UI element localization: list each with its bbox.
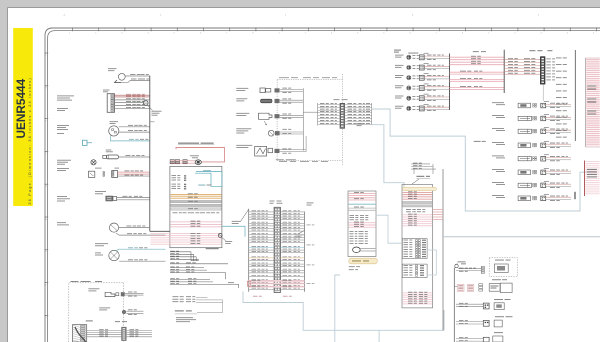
- relay row 6 connector: [541, 170, 546, 175]
- relay row 8 label: [492, 194, 504, 197]
- machine interface label: [57, 95, 74, 98]
- relay row 3 body: [518, 129, 531, 133]
- wires coolant sensor to trunk: [119, 126, 150, 128]
- relay row 7 pins: [533, 183, 535, 185]
- warning lamp label: [99, 307, 110, 310]
- ckt breaker label: [57, 124, 69, 127]
- optional diagnostic box: [489, 258, 517, 277]
- wires B3: [119, 226, 150, 228]
- junction box label row: [173, 211, 178, 214]
- bottom trunk: [453, 268, 455, 342]
- route B to block: [372, 125, 404, 187]
- staircase above block B: [411, 163, 430, 165]
- timing cal probe row: [236, 144, 252, 147]
- relay row 1 body: [518, 103, 530, 108]
- injector 6 wires: [424, 106, 449, 108]
- oil pressure sender: [103, 155, 107, 158]
- injector 4 label: [395, 84, 404, 87]
- svg-text:2: 2: [305, 32, 306, 34]
- injector 2 connector: [419, 65, 424, 70]
- throttle position sensor: [89, 171, 95, 177]
- power table 2 right: [584, 161, 586, 197]
- strip1 bottom label: [357, 122, 364, 125]
- wires J1 to trunk (battery red): [115, 94, 150, 96]
- bulkhead strip: [122, 327, 126, 340]
- injector rail: [449, 54, 451, 111]
- block A breakout oval: [353, 247, 361, 253]
- svg-text:1: 1: [69, 32, 70, 34]
- oil pressure lamp symbol: [91, 160, 96, 165]
- switch row 4: [459, 319, 464, 322]
- bulkhead connector label: [86, 320, 93, 321]
- harness bundle group 4: [170, 277, 175, 280]
- banner title UENR5444: [14, 78, 28, 138]
- ECM connector pin strip: [274, 207, 280, 292]
- injector 1 wires: [424, 55, 449, 57]
- svg-text:2: 2: [95, 32, 96, 34]
- relay row 1 pins: [533, 104, 535, 106]
- injector 4 solenoid: [407, 86, 411, 90]
- throttle pedal labels: [57, 167, 69, 170]
- route label: [474, 140, 481, 143]
- banner subtitle: [28, 77, 32, 205]
- svg-text:8: 8: [462, 32, 463, 34]
- relay column rail: [574, 50, 576, 141]
- teal spare mark: [83, 140, 88, 145]
- trunk elbow to connector box: [150, 230, 170, 232]
- coolant temp sensor B2: [109, 126, 119, 136]
- block B cab main box: [402, 185, 433, 308]
- wire speed sensor to trunk: [125, 75, 150, 77]
- callout engine speed: [147, 105, 152, 111]
- svg-text:5: 5: [383, 32, 384, 34]
- strip3 to relay link: [542, 84, 544, 101]
- service tool row 2: [458, 284, 474, 291]
- engine sensors dashed boundary: [276, 80, 278, 161]
- injector 2 wires: [424, 65, 449, 67]
- intake pressure sensor row: [236, 112, 249, 115]
- service tool note title: [178, 143, 199, 144]
- block B label rows: [406, 208, 411, 211]
- label under junction box: [206, 248, 219, 249]
- machine harness junction box: [170, 166, 222, 247]
- injector 6 connector: [419, 106, 424, 111]
- relay row 4 pins: [533, 143, 535, 145]
- block A inner labels: [350, 230, 354, 233]
- wires shutdown to trunk: [117, 197, 150, 199]
- injector 2 solenoid: [407, 65, 411, 69]
- relay wiring teal staircase: [196, 171, 222, 173]
- at level label: [190, 154, 199, 157]
- injector 5 solenoid: [407, 96, 411, 100]
- svg-text:4: 4: [357, 32, 358, 34]
- spare wire label column: [556, 57, 562, 60]
- relay row 3 pins: [533, 129, 535, 131]
- svg-text:7: 7: [226, 32, 227, 34]
- svg-text:3: 3: [331, 32, 332, 34]
- relay row 1 connector: [541, 103, 546, 108]
- block A cream banner: [349, 258, 378, 264]
- engine connector strip J3: [340, 103, 345, 128]
- injector 3 solenoid: [407, 76, 411, 80]
- service connector row: [459, 267, 464, 270]
- block B hatch rows: [403, 201, 433, 203]
- bottom trunk entry: [455, 264, 458, 267]
- relay row 8 wires: [546, 196, 571, 198]
- fuel switch wires: [125, 292, 144, 294]
- field vertical mid: [334, 282, 336, 342]
- relay row 7 body: [518, 183, 531, 187]
- block A label rows: [350, 214, 355, 217]
- long field wire: [443, 236, 600, 238]
- block B cream banner: [402, 187, 436, 190]
- fuel pressure switch label: [88, 287, 99, 290]
- key switch feed wires: [504, 59, 540, 61]
- relay row 3 wires: [546, 129, 571, 131]
- block B to rail stubs: [433, 209, 444, 211]
- svg-text:5: 5: [174, 32, 175, 34]
- block A cab harness: [348, 191, 376, 257]
- relay row 6 wires: [546, 170, 571, 172]
- ECM battery pin red: [247, 281, 250, 286]
- injector 1 label: [395, 54, 404, 57]
- svg-text:UENR5444: UENR5444: [14, 78, 28, 138]
- relay row 4 connector: [541, 143, 546, 148]
- block B bottom pink rows: [403, 292, 432, 294]
- injector 1 solenoid: [407, 55, 411, 59]
- injector 4 connector: [419, 86, 424, 91]
- note text block: [176, 316, 193, 319]
- relay row 2 pins: [533, 116, 535, 118]
- mid rail: [503, 50, 505, 93]
- relay row 6 label: [492, 168, 504, 171]
- harness bundle row 2: [170, 261, 175, 264]
- oil pressure sender label: [106, 149, 112, 152]
- ground wires text rows: [172, 295, 178, 298]
- coolant temp sensor B2 label: [110, 120, 119, 123]
- fuel pressure switch: [105, 292, 115, 296]
- relay row 5 body: [518, 157, 531, 161]
- junction box orange rows: [171, 194, 222, 196]
- relay row 6 pins: [533, 170, 535, 172]
- relay row 3 connector: [541, 129, 546, 134]
- red jumper loop: [176, 148, 225, 162]
- switch row 5: [459, 336, 464, 339]
- injector 2 label: [395, 64, 404, 67]
- injector 6 solenoid: [407, 106, 411, 110]
- cab connector strip J5: [541, 57, 545, 84]
- route A teal-grey to right side: [372, 109, 587, 211]
- relay row 8 connector: [541, 196, 546, 201]
- strip1 right rail: [371, 103, 373, 125]
- relay row 4 label: [492, 141, 504, 144]
- svg-text:8: 8: [252, 32, 253, 34]
- harness trunk vertical: [149, 76, 151, 232]
- relay row 2 body: [518, 116, 531, 120]
- svg-text:5: 5: [593, 32, 594, 34]
- turbo speed sensor B4 labels: [95, 242, 108, 245]
- svg-text:36 Page, (Dimension: 36 inches: 36 Page, (Dimension: 36 inches x 24 inch…: [28, 77, 32, 205]
- relay row 4 body: [518, 143, 530, 148]
- relay row 6 body: [518, 170, 530, 175]
- harness bundle group 1: [170, 250, 175, 253]
- frame zone ticks left: [44, 52, 48, 54]
- relay row 1 label: [492, 101, 504, 104]
- junction box pink rows: [171, 221, 222, 223]
- relay row 7 wires: [546, 183, 571, 185]
- svg-text:3: 3: [121, 32, 122, 34]
- ECM wire rows: [249, 211, 274, 213]
- svg-text:4: 4: [148, 32, 149, 34]
- block B pin grid 2: [402, 264, 427, 277]
- block B red rows: [403, 192, 432, 194]
- relay row 8 pins: [533, 196, 535, 198]
- injector 3 connector: [419, 75, 424, 80]
- strip J5 right labels: [546, 58, 551, 61]
- relay row 8 body: [518, 196, 530, 201]
- injector 3 wires: [424, 76, 449, 78]
- strip1 wire rows: [318, 104, 340, 106]
- relay row 4 wires: [546, 143, 571, 145]
- relay row 5 wires: [546, 157, 571, 159]
- oil pressure lamp label: [57, 159, 71, 162]
- cab equipment dashed box: [69, 283, 124, 342]
- table 2 labels: [587, 169, 597, 170]
- svg-text:4: 4: [567, 32, 568, 34]
- bulkhead wires: [87, 330, 122, 332]
- ECM bottom red label row: [253, 295, 258, 298]
- injector 1 connector: [419, 55, 424, 60]
- fuel pressure sensor row: [236, 87, 248, 90]
- harness curve: [75, 327, 86, 342]
- switch row 3: [459, 302, 464, 305]
- relay row 2 connector: [541, 116, 546, 121]
- wire B4 low: [119, 260, 165, 262]
- engine speed sensor B1 label: [108, 67, 117, 70]
- wire oil sender to trunk: [119, 156, 150, 158]
- block A pink rows 2: [349, 222, 376, 224]
- relay row 5 pins: [533, 157, 535, 159]
- connector J1/P1 label: [103, 89, 110, 92]
- warning lamp: [122, 310, 126, 314]
- relay row 5 label: [492, 155, 504, 158]
- block A bottom labels: [349, 265, 355, 268]
- svg-text:7: 7: [436, 32, 437, 34]
- J/P engine connector label: [334, 98, 340, 101]
- turbo speed sensor B4: [109, 250, 119, 260]
- power distribution table right: [586, 58, 600, 147]
- bulkhead connector hatched: [73, 325, 87, 342]
- strip1 left rail: [317, 103, 319, 126]
- ECM battery supply pale bands: [249, 280, 305, 282]
- ECM callout arrows: [241, 210, 249, 222]
- relay row 2 label: [492, 114, 504, 117]
- engine speed sensor B1: [118, 73, 125, 80]
- wires J1 to trunk (signal): [115, 99, 150, 101]
- breakout connector on pink band: [218, 234, 222, 238]
- junction box pink hatched band: [151, 233, 222, 235]
- inter-block routes: [375, 215, 402, 243]
- ECM left rail: [248, 209, 250, 292]
- ECM right side extra labels: [307, 224, 311, 227]
- inline connector on speed circuit: [143, 101, 148, 106]
- diagnostic connector pins: [170, 160, 174, 162]
- injector 5 wires: [424, 96, 449, 98]
- ECM J2/P2 label: [270, 200, 275, 203]
- injector 4 wires: [424, 86, 449, 88]
- injector 5 connector: [419, 96, 424, 101]
- block B right rail: [442, 169, 444, 330]
- diagnostic connector shell: [195, 160, 201, 165]
- yellow listing banner: [13, 28, 33, 206]
- injector 5 label: [395, 95, 404, 98]
- supply wires pink bundle: [450, 56, 505, 58]
- breakout callout: [221, 237, 226, 241]
- injector 3 label: [395, 74, 404, 77]
- speed sensor B3 labels: [57, 221, 66, 224]
- shutdown switch label: [95, 190, 106, 193]
- wires throttle to trunk: [118, 171, 150, 173]
- ground stud label: [175, 310, 184, 311]
- junction teal link: [222, 226, 245, 236]
- svg-text:3: 3: [541, 32, 542, 34]
- svg-text:6: 6: [200, 32, 201, 34]
- shutdown switch: [106, 196, 113, 201]
- relay row 7 connector: [541, 183, 546, 188]
- supply pairs lower: [450, 71, 505, 73]
- svg-text:1: 1: [488, 32, 489, 34]
- diagnostic jumper red links: [170, 160, 195, 162]
- relay row 3 label: [492, 127, 504, 130]
- relay row 2 wires: [546, 116, 571, 118]
- trunk stub: [150, 121, 155, 123]
- fuel temp sensor row: [236, 97, 247, 100]
- injector 6 label: [395, 105, 404, 108]
- connector J1/P1 machine interface: [107, 94, 114, 113]
- block B pin grid 1: [402, 239, 427, 259]
- bulkhead strip labels: [115, 320, 120, 323]
- relay row 7 label: [492, 181, 504, 184]
- ECM route down: [243, 292, 444, 331]
- labels above injector bank: [394, 50, 401, 51]
- wire coolant shield teal: [111, 136, 150, 141]
- ECM right rail: [304, 212, 306, 292]
- svg-text:2: 2: [514, 32, 515, 34]
- bottom note middle cluster: [276, 158, 284, 161]
- relay row 5 connector: [541, 157, 546, 162]
- speed sensor B3: [109, 223, 118, 232]
- oil level switch row: [236, 127, 251, 130]
- junction box pin rows upper: [172, 174, 177, 177]
- relay row 1 wires: [546, 103, 571, 105]
- sensor harness rail mid: [302, 88, 304, 150]
- block B pink rows: [403, 214, 432, 216]
- svg-text:6: 6: [410, 32, 411, 34]
- junction box grey hatch rows: [171, 200, 222, 202]
- svg-text:1: 1: [279, 32, 280, 34]
- block B title: [416, 176, 424, 177]
- frame zone ticks top: [72, 27, 74, 31]
- wire B4 teal: [116, 249, 166, 251]
- harness bundle group 3: [170, 266, 175, 269]
